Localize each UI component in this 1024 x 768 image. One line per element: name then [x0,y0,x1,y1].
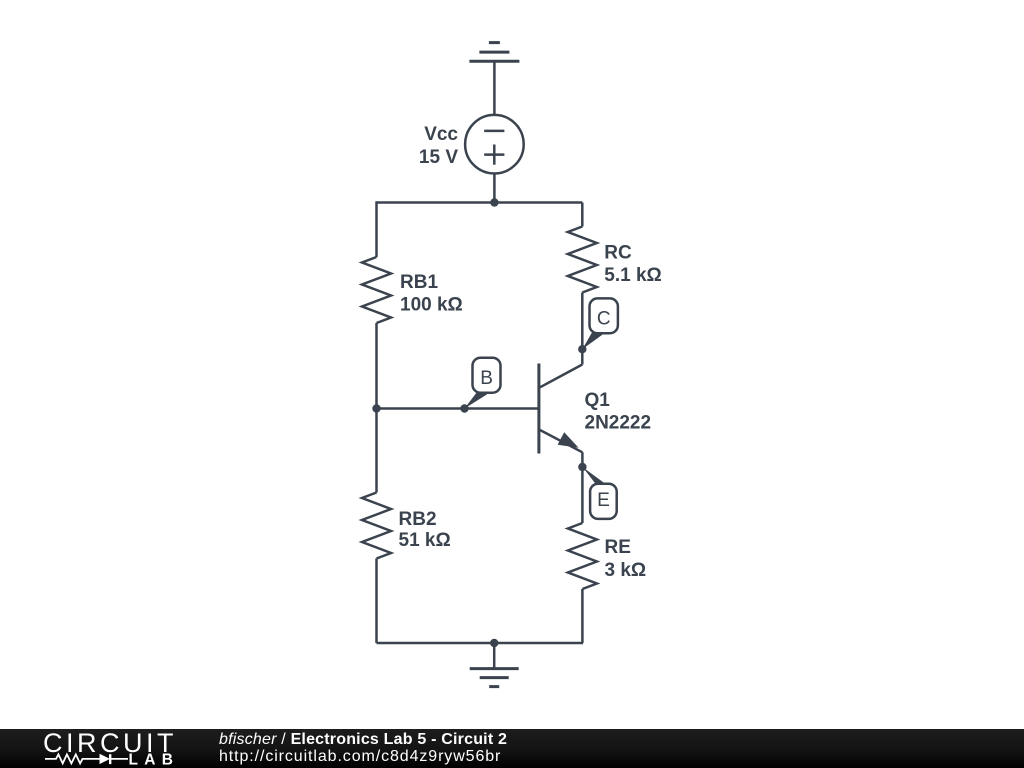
wire: V1 to top rail [493,174,496,203]
node junction at top rail [490,198,498,206]
wire: top rail to RB1 [375,201,378,257]
node junction at divider [372,404,380,412]
wire: top rail [377,201,583,204]
svg-text:2N2222: 2N2222 [585,412,652,433]
wire: top rail to RC [581,203,584,227]
resistor RB2 [362,493,391,559]
wire: RE to bottom rail [581,589,584,643]
footer bar [0,729,1024,768]
svg-text:5.1 kΩ: 5.1 kΩ [604,265,662,286]
svg-text:51 kΩ: 51 kΩ [399,530,451,551]
svg-text:100 kΩ: 100 kΩ [400,295,463,316]
svg-text:RB1: RB1 [400,272,438,293]
resistor RE [568,523,597,589]
wire: bottom rail to ground [493,643,496,669]
value label RE 3 kΩ [605,537,647,581]
transistor Q1 (NPN 2N2222) [539,364,583,454]
wire: base wire from divider node to Q1 base [377,407,539,410]
wire: node to RB2 [375,409,378,493]
wire: top ground to V1 positive terminal [493,61,496,115]
wire: RB2 to bottom rail [375,559,378,644]
svg-text:LAB: LAB [129,751,180,768]
svg-text:C: C [597,309,611,330]
resistor RB1 [362,257,391,323]
svg-text:3 kΩ: 3 kΩ [605,560,647,581]
ground (top, above Vcc source) [469,43,519,62]
terminal label E (emitter callout) [578,463,616,519]
svg-text:RE: RE [605,537,631,558]
CircuitLab logo [0,729,200,768]
svg-text:Q1: Q1 [585,390,611,411]
value label RC 5.1 kΩ [604,243,662,287]
svg-text:RC: RC [604,243,632,264]
value label RB2 51 kΩ [399,509,451,551]
wire: Q1 emitter down to RE [581,452,584,523]
svg-text:B: B [480,368,493,389]
wire: RC to Q1 collector [581,293,584,365]
ground (bottom) [470,669,519,687]
svg-text:Vcc: Vcc [424,124,458,145]
value label RB1 100 kΩ [400,272,463,316]
value label Vcc 15 V [419,124,459,168]
svg-text:RB2: RB2 [399,509,437,530]
footer title text [219,732,507,765]
wire: bottom rail [377,642,584,645]
resistor RC [568,227,597,293]
terminal label C (collector callout) [578,298,618,353]
svg-text:15 V: 15 V [419,147,458,168]
value label Q1 2N2222 [585,390,652,434]
svg-text:E: E [597,490,610,511]
terminal label B (base callout) [460,358,500,413]
voltage source V1 (Vcc 15 V) [465,115,524,174]
node junction at bottom rail [490,639,498,647]
wire: RB1 to node B rail [375,323,378,409]
